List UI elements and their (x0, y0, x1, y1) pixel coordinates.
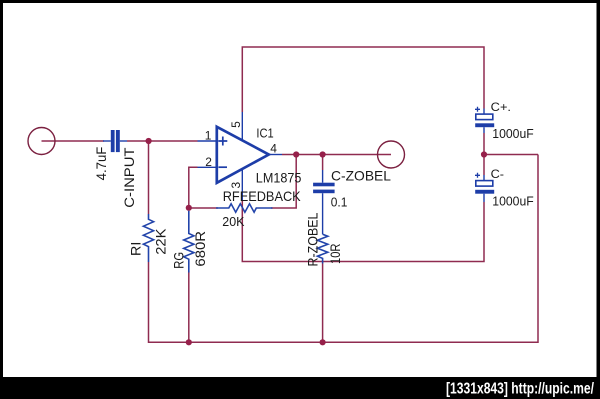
output port connector (378, 141, 405, 168)
svg-text:RI: RI (128, 242, 144, 256)
wire pin5 to top rail (242, 47, 484, 112)
op-amp U1 triangle (217, 127, 269, 183)
wire pin2 to feedback node (189, 167, 198, 208)
svg-text:C-INPUT: C-INPUT (121, 147, 137, 208)
svg-text:RFEEDBACK: RFEEDBACK (223, 188, 302, 204)
node junction ground rail R-ZOBEL (320, 339, 326, 345)
wire C- top from midpoint node (483, 155, 485, 176)
value 22K (153, 228, 169, 255)
svg-text:RG: RG (170, 252, 186, 269)
label R-ZOBEL (305, 212, 321, 266)
wire feedback node to RFEEDBACK left (189, 207, 218, 209)
wire junction to RI (148, 141, 150, 214)
value 4.7uF (93, 147, 109, 181)
pin 1 lead (198, 140, 217, 142)
capacitor C-ZOBEL (313, 170, 335, 234)
label IC1 (256, 127, 273, 141)
wire midpoint node to right rail (484, 154, 538, 156)
wire input line (42, 140, 198, 142)
value 1000uF top (492, 126, 533, 141)
svg-text:C-: C- (491, 167, 504, 181)
label RI (128, 242, 144, 256)
wire RG bottom to ground rail (188, 271, 190, 342)
svg-text:680R: 680R (192, 231, 208, 267)
capacitor C- (475, 173, 494, 202)
svg-text:22K: 22K (153, 228, 169, 255)
svg-text:2: 2 (205, 155, 212, 169)
svg-text:0.1: 0.1 (331, 195, 348, 209)
value LM1875 (256, 169, 302, 185)
label RG (170, 252, 186, 269)
value 1000uF bottom (492, 193, 533, 208)
wire RI bottom to ground rail (149, 155, 539, 343)
capacitor C+ (475, 107, 494, 133)
node junction at C-INPUT / RI (146, 138, 152, 144)
svg-text:1000uF: 1000uF (492, 193, 533, 208)
label C-ZOBEL (331, 167, 391, 183)
value 680R (192, 231, 208, 267)
value 10R (327, 244, 343, 265)
pin number 4 (270, 141, 277, 155)
svg-text:1: 1 (205, 128, 212, 142)
pin 2 lead (198, 166, 217, 168)
wire C-ZOBEL branch from output (322, 155, 324, 171)
svg-text:4: 4 (270, 141, 277, 155)
value 0.1 (331, 195, 348, 209)
wire pin3 to negative rail (242, 200, 484, 262)
pin number 1 (205, 128, 212, 142)
svg-text:4.7uF: 4.7uF (93, 147, 109, 181)
value 20K (222, 214, 245, 229)
svg-text:10R: 10R (327, 244, 343, 265)
resistor RG (184, 211, 194, 273)
node junction at pin4 output / feedback (293, 151, 299, 157)
svg-text:LM1875: LM1875 (256, 169, 302, 185)
label C- (491, 167, 504, 181)
svg-text:1000uF: 1000uF (492, 126, 533, 141)
capacitor C-INPUT (103, 130, 127, 152)
resistor RFEEDBACK (216, 204, 273, 212)
svg-text:5: 5 (229, 121, 243, 128)
label C-INPUT (121, 147, 137, 208)
svg-text:20K: 20K (222, 214, 245, 229)
node junction at C+ C- midpoint (481, 151, 487, 157)
wire output line (282, 154, 391, 156)
node junction at output / zobel branch (320, 151, 326, 157)
pin 3 lead (241, 169, 243, 200)
caption bar (0, 377, 600, 399)
pin 5 lead (241, 112, 243, 140)
svg-text:C-ZOBEL: C-ZOBEL (331, 167, 391, 183)
resistor RI (143, 214, 153, 262)
wire RFEEDBACK right to output node (271, 155, 296, 209)
pin number 5 (229, 121, 243, 128)
wire R-ZOBEL bottom to ground rail (322, 264, 324, 343)
pin number 3 (229, 182, 243, 189)
svg-text:R-ZOBEL: R-ZOBEL (305, 212, 321, 266)
input port connector (28, 128, 55, 155)
label C+ (491, 100, 511, 114)
pin number 2 (205, 155, 212, 169)
svg-text:IC1: IC1 (256, 127, 273, 141)
node junction at pin2 / RG / RFEEDBACK (186, 205, 192, 211)
svg-text:C+.: C+. (491, 100, 511, 114)
wire C+ bottom to midpoint node (483, 133, 485, 155)
svg-text:[1331x843] http://upic.me/: [1331x843] http://upic.me/ (446, 381, 595, 398)
resistor R-ZOBEL (317, 234, 327, 263)
node junction ground rail RG (186, 339, 192, 345)
pin 4 lead (269, 154, 282, 156)
label RFEEDBACK (223, 188, 302, 204)
